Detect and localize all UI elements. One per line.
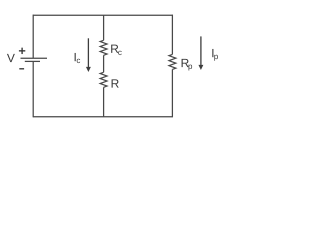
label R_p : R <box>182 59 189 67</box>
battery V1 top plate <box>21 57 48 59</box>
arrowhead I_p <box>198 65 203 70</box>
wire left lower <box>32 61 34 117</box>
battery V1 bottom plate <box>25 60 40 62</box>
resistor R_p <box>169 54 176 69</box>
label V <box>7 54 15 62</box>
label R_p subscript p <box>189 65 193 71</box>
wire middle upper <box>103 15 105 40</box>
resistor R_c <box>100 40 107 55</box>
label I_p subscript p <box>214 55 218 61</box>
label I_p : I <box>212 49 213 57</box>
wire middle lower <box>103 87 105 116</box>
label I_c : I <box>75 53 76 61</box>
wire bottom <box>33 116 172 118</box>
label I_c subscript c <box>77 59 80 63</box>
battery minus sign <box>19 68 24 70</box>
resistor R <box>100 72 107 87</box>
wire right lower <box>171 69 173 117</box>
battery plus sign <box>19 48 25 54</box>
current arrow I_c <box>87 38 89 67</box>
wire left upper <box>32 15 34 59</box>
wire middle between R_c and R <box>103 55 105 72</box>
label R_c : R <box>111 45 118 53</box>
current arrow I_p <box>200 36 202 65</box>
arrowhead I_c <box>86 67 91 72</box>
label R <box>112 79 119 87</box>
wire top <box>33 14 172 16</box>
wire right upper <box>171 15 173 55</box>
label R_c subscript c <box>118 51 121 55</box>
